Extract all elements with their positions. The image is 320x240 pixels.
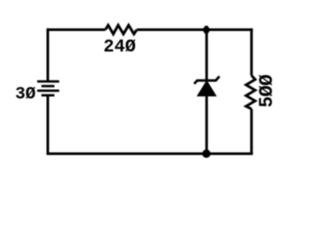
resistor R1 zigzag: [105, 25, 136, 34]
wire: top rail right segment: [137, 28, 253, 31]
zener diode D1 cathode bar with bent ends: [194, 76, 219, 84]
wire: zener branch top lead: [205, 30, 208, 81]
battery V1 plate 1 (long, +): [37, 80, 59, 82]
wire: right rail bottom: [250, 109, 253, 155]
wire: left rail bottom (source negative lead): [46, 95, 49, 155]
wire: right rail top: [250, 28, 253, 75]
battery V1 plate 2 (short, -): [41, 85, 54, 87]
junction dot: bottom node: [202, 150, 210, 158]
wire: zener branch bottom lead: [205, 95, 208, 153]
svg-text:24Ø: 24Ø: [103, 37, 136, 57]
svg-text:3Ø: 3Ø: [15, 86, 36, 105]
svg-text:Ø: Ø: [256, 85, 278, 96]
svg-text:5: 5: [256, 96, 278, 107]
resistor R2 zigzag (vertical): [246, 76, 255, 109]
svg-text:Ø: Ø: [256, 74, 278, 85]
junction dot: top node: [202, 26, 210, 34]
wire: top rail left segment: [47, 28, 106, 31]
zener diode D1 anode triangle: [198, 81, 216, 96]
battery V1 plate 3 (long, +): [37, 89, 59, 91]
wire: bottom rail: [47, 152, 253, 155]
battery V1 plate 4 (short, -): [41, 94, 54, 96]
wire: left rail top (source positive lead): [46, 28, 49, 81]
